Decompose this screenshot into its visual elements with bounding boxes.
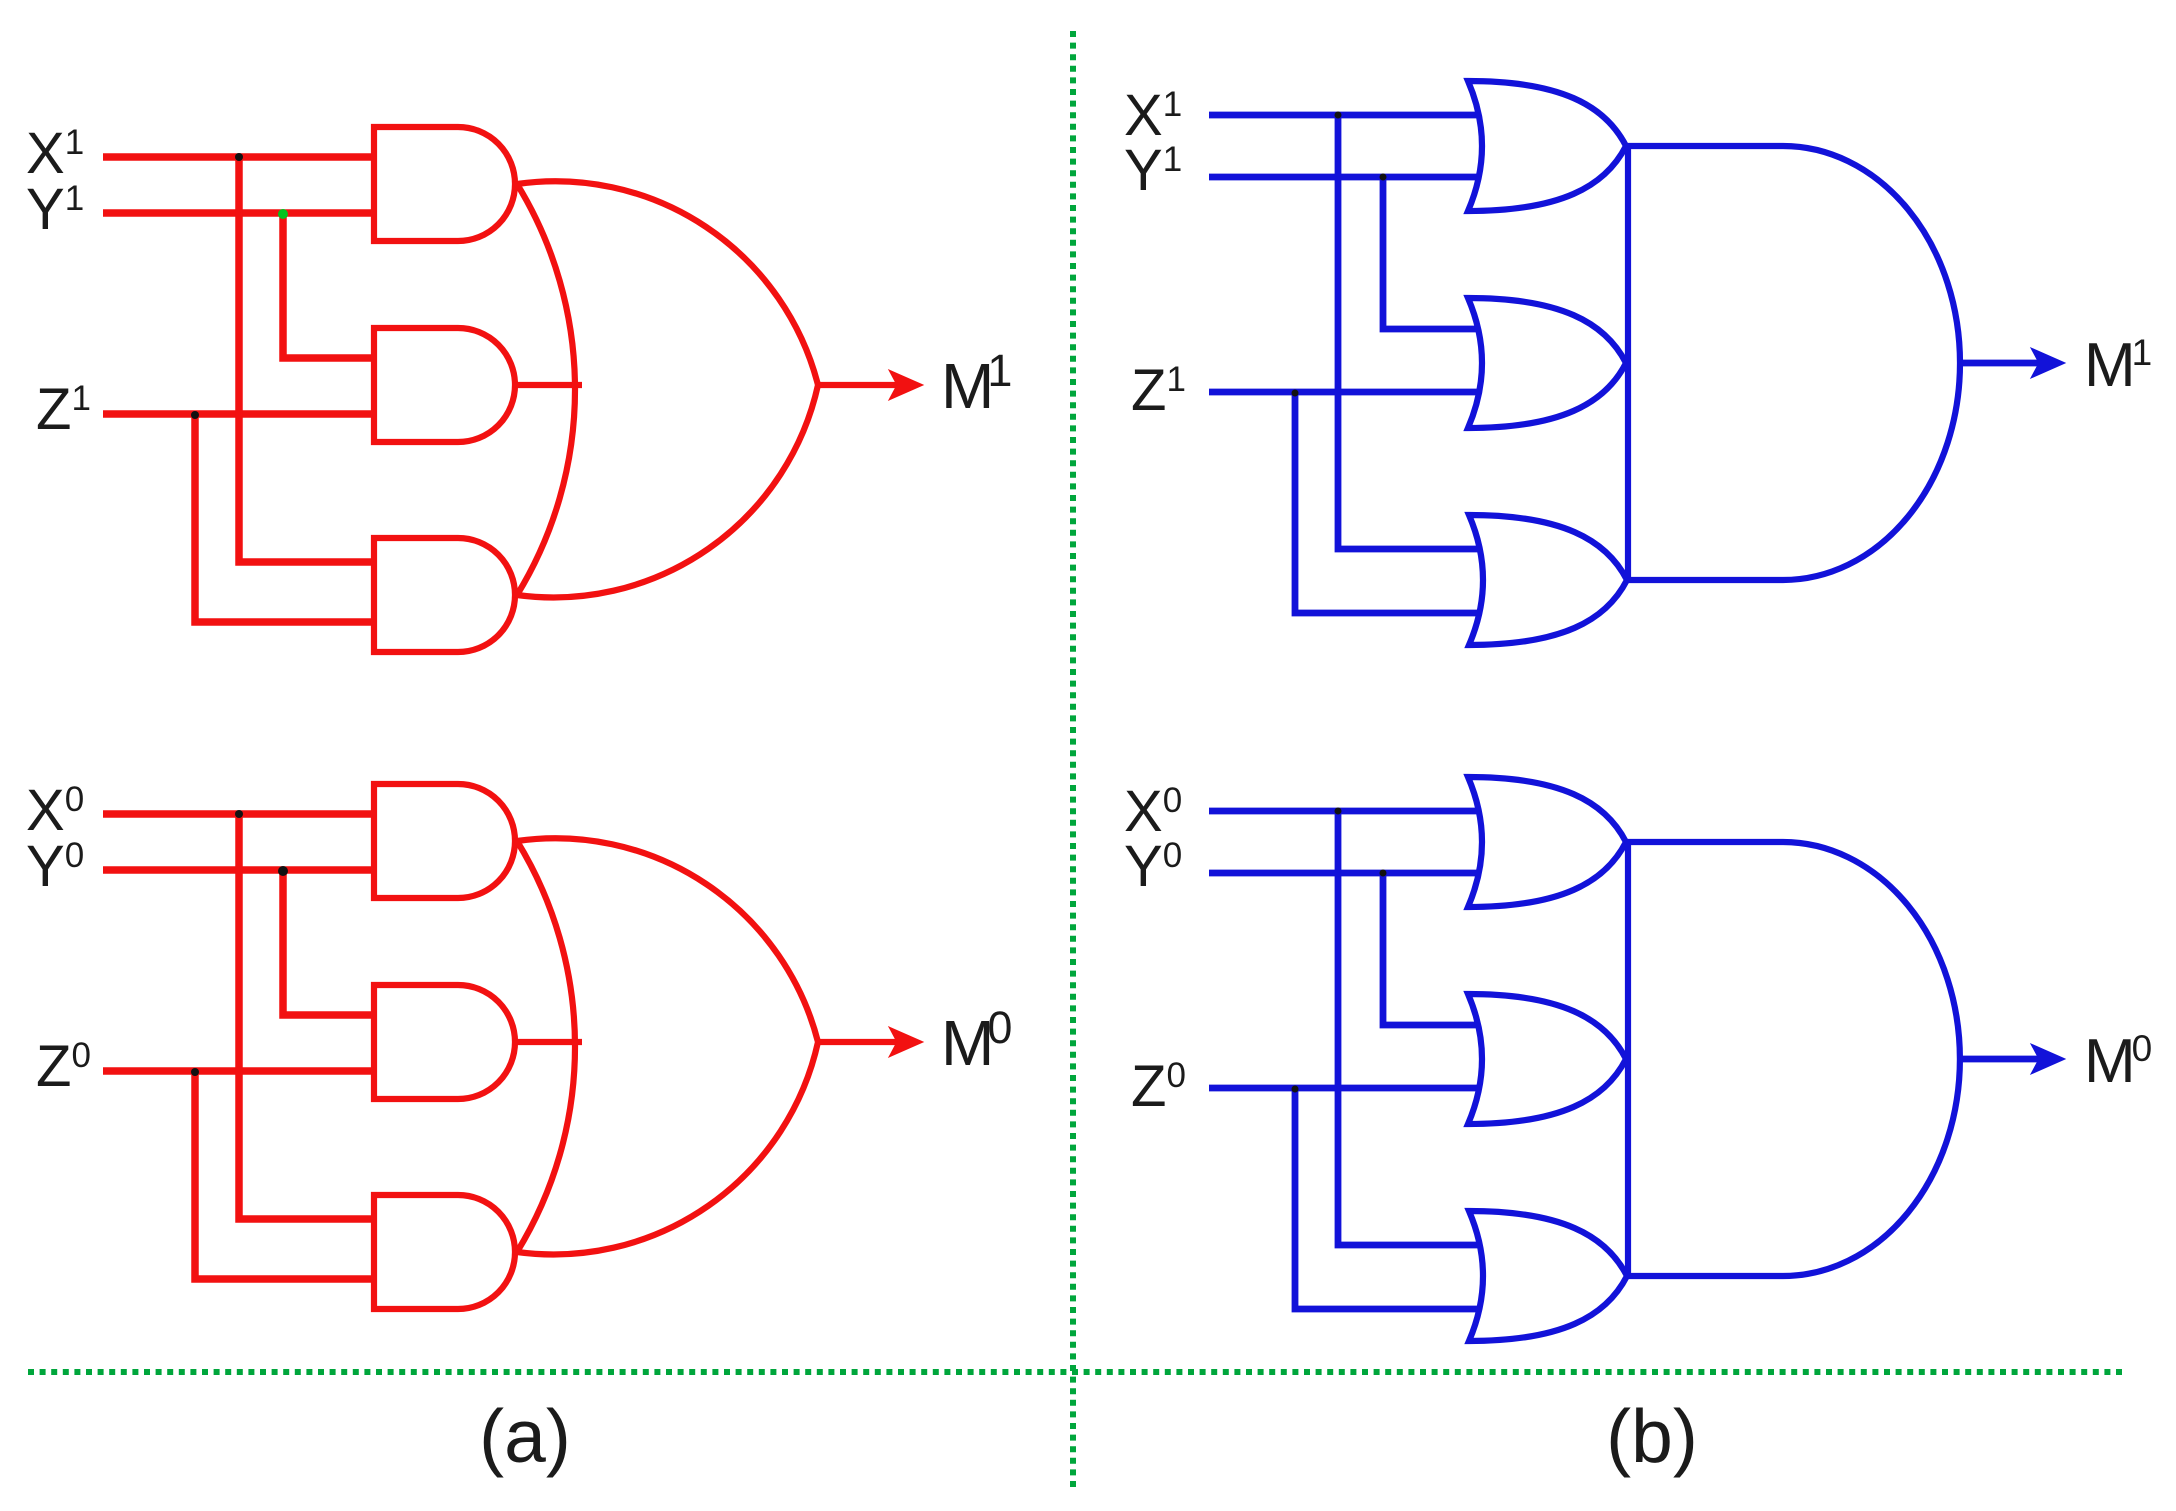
wire Y0 branch down to OR gate B22 bbox=[1383, 873, 1477, 1025]
AND gate A21 bbox=[374, 784, 515, 898]
wire X0 to OR gate B21 bbox=[1209, 808, 1479, 815]
junction Z1 bbox=[191, 411, 199, 419]
svg-text:M1: M1 bbox=[2084, 331, 2152, 400]
wire X1 branch down to AND gate A13 bbox=[239, 157, 377, 562]
junction Z1 bbox=[1292, 390, 1299, 397]
wire Z0 to AND gate A22 bbox=[103, 1067, 377, 1075]
AND gate A11 bbox=[374, 127, 515, 241]
wire X0 branch down to OR gate B23 bbox=[1338, 811, 1478, 1245]
junction X0 bbox=[235, 810, 243, 818]
OR gate O1 3-input bbox=[517, 181, 818, 597]
OR gate B12 bbox=[1468, 298, 1626, 428]
dotted divider vertical between panels bbox=[1070, 31, 1076, 1490]
junction Y0 bbox=[1380, 870, 1387, 877]
wire Z0 branch down to OR gate B23 bbox=[1295, 1088, 1479, 1309]
junction Y0 bbox=[278, 866, 288, 876]
AND gate A12 bbox=[374, 328, 515, 442]
wire Z1 to OR gate B12 bbox=[1209, 389, 1480, 396]
junction Z0 bbox=[1292, 1086, 1299, 1093]
dotted divider horizontal above captions bbox=[28, 1369, 2122, 1375]
wire Y1 to AND gate A11 bbox=[103, 209, 377, 217]
wire AND A12 output to OR input bbox=[515, 382, 582, 388]
svg-text:(b): (b) bbox=[1606, 1394, 1698, 1478]
OR gate B23 bbox=[1469, 1211, 1627, 1341]
wire X1 to OR gate B11 bbox=[1209, 112, 1479, 119]
AND gate C2 3-input bbox=[1628, 842, 1960, 1276]
arrowhead M0 output bbox=[889, 1027, 923, 1057]
svg-text:M1: M1 bbox=[941, 345, 1012, 422]
wire Y1 branch down to AND gate A12 bbox=[283, 213, 377, 358]
svg-text:Y0: Y0 bbox=[26, 834, 84, 899]
wire Z0 to OR gate B22 bbox=[1209, 1085, 1480, 1092]
svg-text:Y0: Y0 bbox=[1124, 834, 1182, 899]
wire Z1 branch down to AND gate A13 bbox=[195, 414, 377, 622]
OR gate B13 bbox=[1469, 515, 1627, 645]
wire OR O2 output bbox=[818, 1039, 897, 1045]
OR gate O2 3-input bbox=[517, 838, 818, 1254]
svg-text:(a): (a) bbox=[479, 1394, 571, 1478]
wire X0 to AND gate A21 bbox=[103, 810, 377, 818]
wire X0 branch down to AND gate A23 bbox=[239, 814, 377, 1219]
wire X1 branch down to OR gate B13 bbox=[1338, 115, 1478, 549]
AND gate C1 3-input bbox=[1628, 146, 1960, 580]
wire AND A22 output to OR input bbox=[515, 1039, 582, 1045]
AND gate A22 bbox=[374, 985, 515, 1099]
svg-text:Y1: Y1 bbox=[26, 177, 84, 242]
wire Y0 to AND gate A21 bbox=[103, 866, 377, 874]
wire Z1 branch down to OR gate B13 bbox=[1295, 392, 1479, 613]
junction Y1 bbox=[1380, 174, 1387, 181]
svg-text:Z0: Z0 bbox=[36, 1034, 91, 1099]
svg-text:Z1: Z1 bbox=[36, 377, 91, 442]
wire AND C1 output bbox=[1960, 360, 2040, 367]
OR gate B21 bbox=[1468, 777, 1626, 907]
svg-text:Y1: Y1 bbox=[1124, 138, 1182, 203]
arrowhead M1 output bbox=[2031, 348, 2065, 378]
junction X1 bbox=[1335, 112, 1342, 119]
wire Y1 branch down to OR gate B12 bbox=[1383, 177, 1477, 329]
wire Y0 branch down to AND gate A22 bbox=[283, 870, 377, 1015]
wire Z1 to AND gate A12 bbox=[103, 410, 377, 418]
OR gate B11 bbox=[1468, 81, 1626, 211]
svg-text:M0: M0 bbox=[2084, 1027, 2152, 1096]
svg-text:Z0: Z0 bbox=[1131, 1054, 1186, 1119]
AND gate A23 bbox=[374, 1195, 515, 1309]
wire OR O1 output bbox=[818, 382, 897, 388]
svg-text:M0: M0 bbox=[941, 1002, 1012, 1079]
arrowhead M0 output bbox=[2031, 1044, 2065, 1074]
AND gate A13 bbox=[374, 538, 515, 652]
junction Z0 bbox=[191, 1068, 199, 1076]
junction X0 bbox=[1335, 808, 1342, 815]
wire X1 to AND gate A11 bbox=[103, 153, 377, 161]
wire Y1 to OR gate B11 bbox=[1209, 174, 1478, 181]
junction X1 bbox=[235, 153, 243, 161]
wire AND C2 output bbox=[1960, 1056, 2040, 1063]
wire Z0 branch down to AND gate A23 bbox=[195, 1071, 377, 1279]
wire Y0 to OR gate B21 bbox=[1209, 870, 1478, 877]
OR gate B22 bbox=[1468, 994, 1626, 1124]
arrowhead M1 output bbox=[889, 370, 923, 400]
svg-text:Z1: Z1 bbox=[1131, 358, 1186, 423]
junction Y1 bbox=[278, 209, 288, 219]
